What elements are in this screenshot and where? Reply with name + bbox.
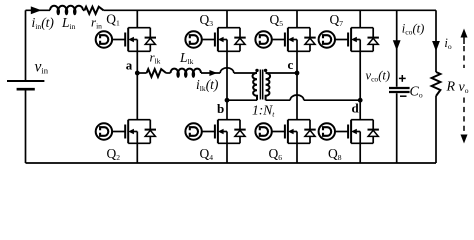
transformer polarity dot (secondary)	[264, 69, 267, 72]
wire: bottom rail	[26, 162, 437, 164]
wire: leg 3/4 upper source to mid node	[226, 51, 228, 100]
transformer T (1:Nt) primary winding	[253, 73, 257, 100]
current arrow i_lk(t)	[209, 70, 217, 76]
wire hop: a-wire over leg Q3/Q4	[220, 68, 234, 73]
wire: leg 1/2 drain stem to top rail	[136, 10, 138, 27]
transistor Q2	[96, 120, 156, 144]
transistor Q8	[319, 120, 379, 144]
wire: R branch lower	[435, 96, 437, 163]
node a	[135, 71, 140, 76]
wire: hop to node d	[304, 99, 360, 101]
capacitor C_o	[389, 88, 410, 92]
wire: top rail (between L_in and r_in)	[83, 9, 85, 11]
wire: leg 7/8 mid node to lower drain	[359, 100, 361, 120]
svg-text:a: a	[126, 57, 133, 72]
wire: R branch upper	[435, 10, 437, 72]
wire: leg 5/6 upper source to mid node	[296, 51, 298, 73]
node b	[225, 98, 230, 103]
wire: leg 3/4 mid node to lower drain	[226, 100, 228, 120]
wire hop: secondary bottom over leg Q5/Q6	[290, 95, 304, 100]
wire: secondary bottom to hop	[266, 99, 291, 101]
wire: leg 1/2 lower source to bottom rail	[136, 143, 138, 163]
wire: top rail (main segment)	[104, 9, 437, 11]
resistor r_lk	[147, 69, 167, 77]
svg-text:ilk(t): ilk(t)	[196, 77, 219, 93]
wire: cap branch upper	[396, 10, 398, 87]
svg-text:c: c	[288, 57, 294, 72]
node c	[295, 71, 300, 76]
wire: leg 1/2 upper source to mid node	[136, 51, 138, 73]
wire: leg 3/4 lower source to bottom rail	[226, 143, 228, 163]
wire: leg 5/6 mid node to lower drain	[296, 73, 298, 120]
svg-text:vco(t): vco(t)	[366, 69, 391, 84]
capacitor minus sign	[400, 95, 407, 97]
wire: leg 5/6 lower source to bottom rail	[296, 143, 298, 163]
wire: cap branch lower	[396, 93, 398, 163]
capacitor plus sign	[399, 75, 406, 82]
transformer core	[259, 70, 261, 100]
svg-text:d: d	[352, 101, 360, 116]
svg-text:R: R	[446, 80, 456, 95]
wire: node a to r_lk	[137, 72, 146, 74]
wire: leg 1/2 mid node to lower drain	[136, 73, 138, 120]
wire: input left vertical (source to top rail)	[25, 10, 27, 81]
current arrow i_o	[432, 41, 440, 51]
wire: r_lk to L_lk	[166, 72, 170, 74]
node d	[358, 98, 363, 103]
transistor Q6	[255, 120, 315, 144]
transistor Q4	[185, 120, 245, 144]
transformer polarity dot (primary)	[255, 69, 258, 72]
wire: leg 7/8 drain stem to top rail	[359, 10, 361, 27]
wire: secondary top to node c	[266, 72, 297, 74]
transistor Q7	[319, 28, 379, 52]
wire: leg 3/4 drain stem to top rail	[226, 10, 228, 27]
transistor Q5	[255, 28, 315, 52]
transformer secondary winding	[266, 73, 270, 100]
voltage arrow v_o (dashed double arrow)	[461, 29, 468, 144]
wire: node b to transformer primary bottom	[227, 99, 257, 101]
inductor L_lk	[171, 69, 202, 73]
svg-text:b: b	[217, 101, 224, 116]
wire: top rail (input segment)	[26, 9, 51, 11]
wire: leg 7/8 upper source to mid node	[359, 51, 361, 100]
transistor Q1	[96, 28, 156, 52]
svg-text:1:Nt: 1:Nt	[252, 103, 275, 119]
voltage source v_in (battery)	[7, 81, 44, 89]
transistor Q3	[185, 28, 245, 52]
resistor R	[432, 72, 441, 96]
wire: leg 7/8 lower source to bottom rail	[359, 143, 361, 163]
current arrow i_co(t)	[393, 40, 401, 50]
inductor L_in	[50, 6, 83, 11]
resistor r_in	[85, 7, 104, 14]
svg-text:iin(t): iin(t)	[32, 15, 55, 31]
svg-text:ico(t): ico(t)	[402, 22, 424, 37]
wire: L_lk to hop, with current arrow	[201, 72, 220, 74]
wire: leg 5/6 drain stem to top rail	[296, 10, 298, 27]
wire: hop to transformer primary top	[234, 72, 257, 74]
wire: input left vertical (source to bottom rail)	[25, 89, 27, 163]
current arrow i_in(t)	[31, 6, 42, 14]
